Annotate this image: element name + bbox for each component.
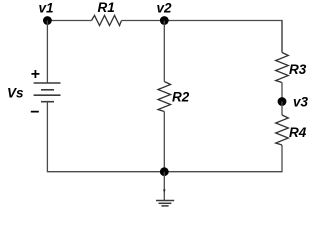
- node v1: [43, 16, 52, 25]
- voltage source Vs battery plates: [34, 83, 61, 102]
- svg-text:+: +: [31, 66, 40, 83]
- wire right branch top to R3: [281, 21, 283, 53]
- wire v2 to R2: [163, 21, 165, 82]
- wire v1 to R1: [47, 20, 91, 22]
- wire R2 to ground junction: [163, 112, 165, 172]
- resistor R4: [276, 115, 289, 145]
- ground junction node: [160, 167, 169, 176]
- svg-text:v2: v2: [157, 1, 173, 16]
- wire R3 to v3: [281, 83, 283, 102]
- svg-text:Vs: Vs: [7, 86, 24, 101]
- resistor R2: [158, 82, 171, 112]
- svg-text:v3: v3: [293, 95, 309, 110]
- svg-text:R4: R4: [289, 125, 307, 140]
- node v2: [160, 16, 169, 25]
- node v3: [278, 97, 287, 106]
- ground: [156, 201, 174, 206]
- wire battery bottom to bottom-left corner to ground junction: [47, 102, 164, 172]
- wire v2 to right branch top: [164, 21, 282, 53]
- wire R4 to bottom-right corner to ground junction: [164, 145, 282, 172]
- svg-text:R2: R2: [172, 90, 190, 105]
- svg-text:R1: R1: [98, 0, 115, 15]
- resistor R1: [92, 15, 122, 25]
- resistor R3: [276, 53, 289, 83]
- svg-text:R3: R3: [289, 62, 307, 77]
- svg-text:v1: v1: [39, 1, 54, 16]
- wire v3 to R4: [281, 102, 283, 116]
- svg-text:−: −: [30, 104, 39, 121]
- wire ground stub: [163, 172, 165, 201]
- wire R1 to v2: [122, 20, 165, 22]
- ground stub arrow tick: [163, 190, 166, 194]
- wire v1 to battery top: [46, 21, 48, 84]
